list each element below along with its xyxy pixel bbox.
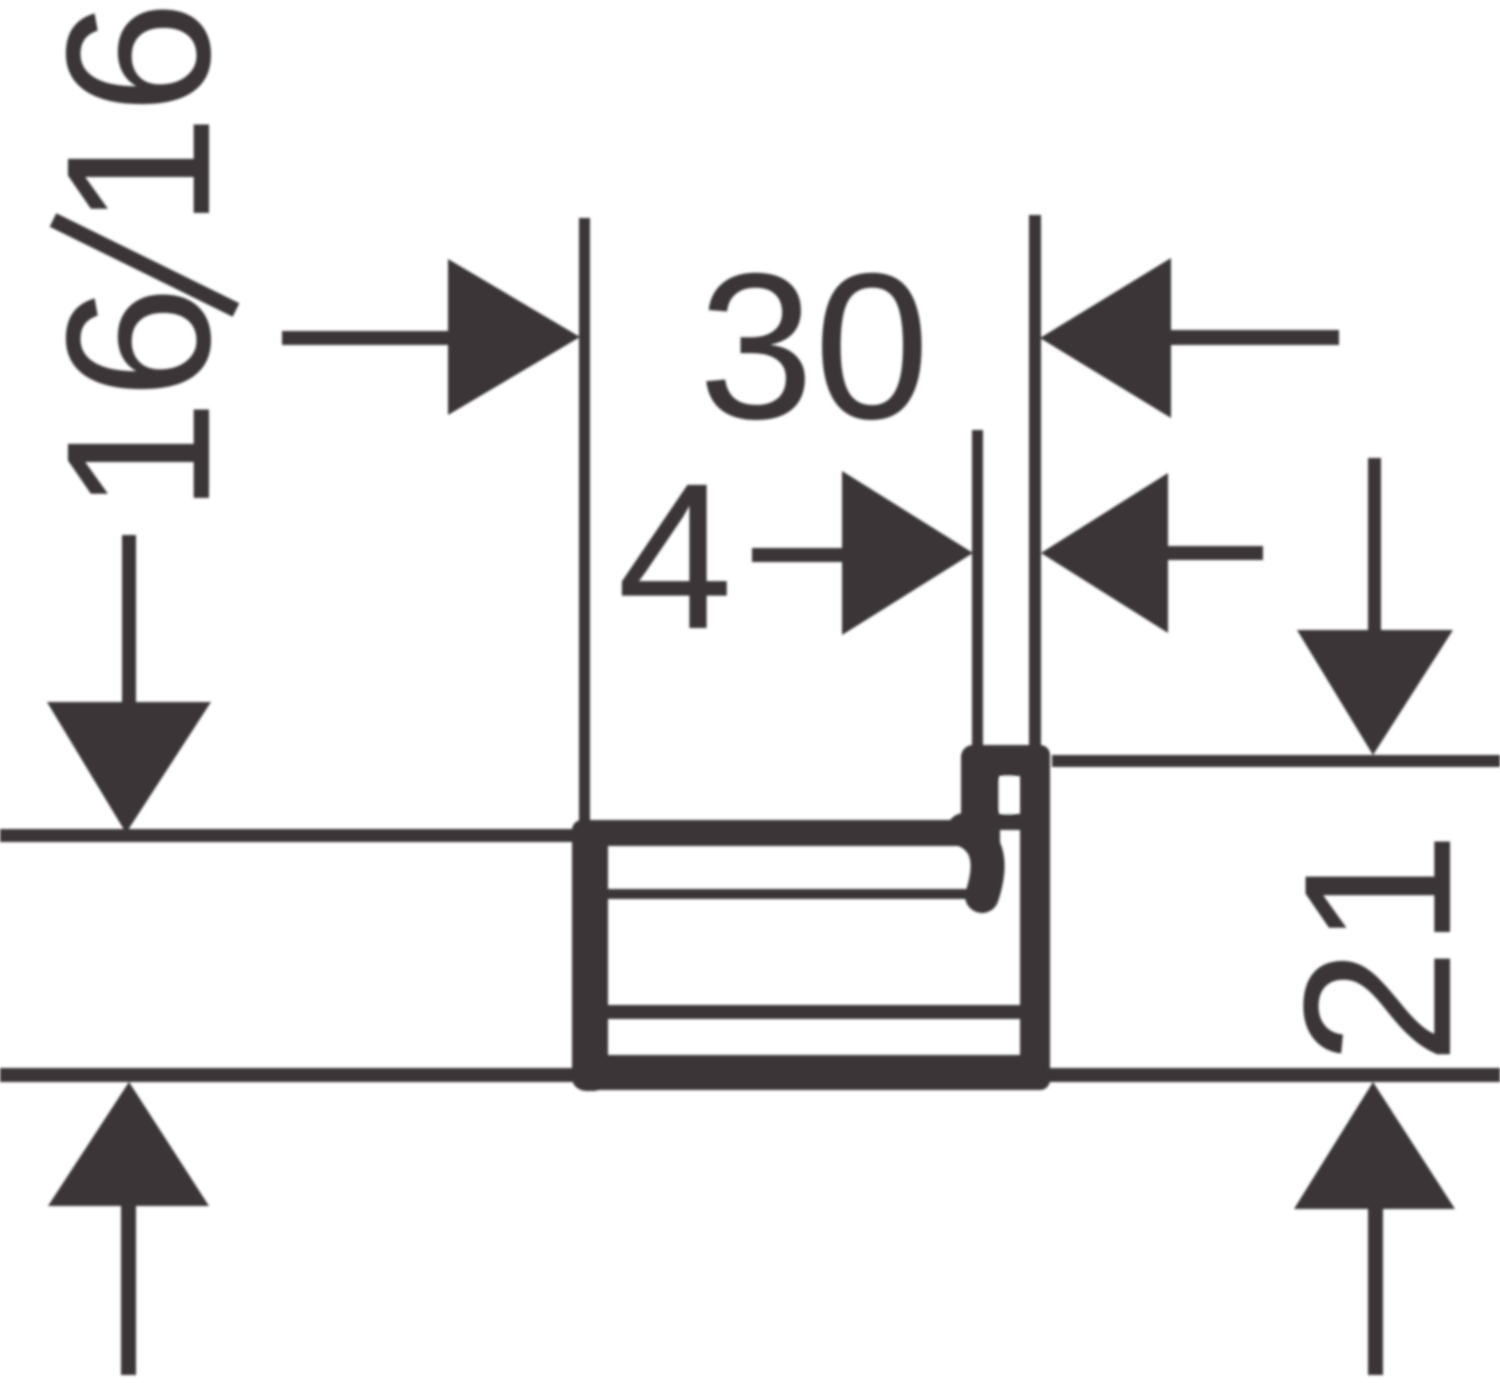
hook slot white	[999, 776, 1017, 814]
extension line 4	[972, 430, 983, 750]
profile bottom bar	[572, 1055, 1050, 1090]
profile hook notch filler	[983, 814, 1000, 846]
dim 30 right arrow	[1040, 258, 1171, 418]
top surface line left	[0, 829, 600, 842]
arrow up bottom-right	[1294, 1082, 1455, 1209]
svg-text:30: 30	[698, 231, 929, 463]
profile hook belt	[990, 814, 1021, 830]
profile J curve	[964, 830, 988, 896]
profile hook left wall	[961, 745, 999, 829]
line below right arrow	[1368, 1209, 1383, 1375]
dim 4 right leader	[1168, 546, 1263, 560]
profile left column	[572, 820, 608, 1091]
label 16/16 slash	[53, 220, 236, 310]
dim 30 right leader	[1171, 330, 1339, 345]
dim line 16/16 vertical	[122, 535, 136, 704]
dim 4 arrow right-pointing	[842, 471, 973, 635]
arrow down 16/16	[47, 702, 211, 833]
arrow up bottom-left	[48, 1082, 209, 1206]
extension line right (30)	[1029, 215, 1041, 750]
top surface line right	[1052, 755, 1500, 767]
dim 4 leader	[752, 548, 845, 562]
profile top bar	[572, 820, 1000, 846]
profile right column	[1020, 745, 1050, 1090]
inner bottom line	[608, 1005, 1020, 1019]
profile hook bridge	[961, 745, 1050, 776]
inner shelf line	[608, 889, 978, 899]
svg-text:21: 21	[1260, 831, 1495, 1065]
bottom surface line full width	[0, 1068, 1500, 1082]
line below left arrow	[121, 1206, 136, 1375]
dim 30 left leader	[282, 331, 452, 345]
extension line left (30)	[579, 218, 590, 824]
dim 30 left arrow	[448, 259, 580, 415]
arrow down 21	[1297, 630, 1453, 755]
svg-text:4: 4	[617, 441, 733, 673]
dim 4 right arrow left-pointing	[1041, 473, 1168, 633]
dim 21 top vertical line	[1368, 458, 1381, 632]
